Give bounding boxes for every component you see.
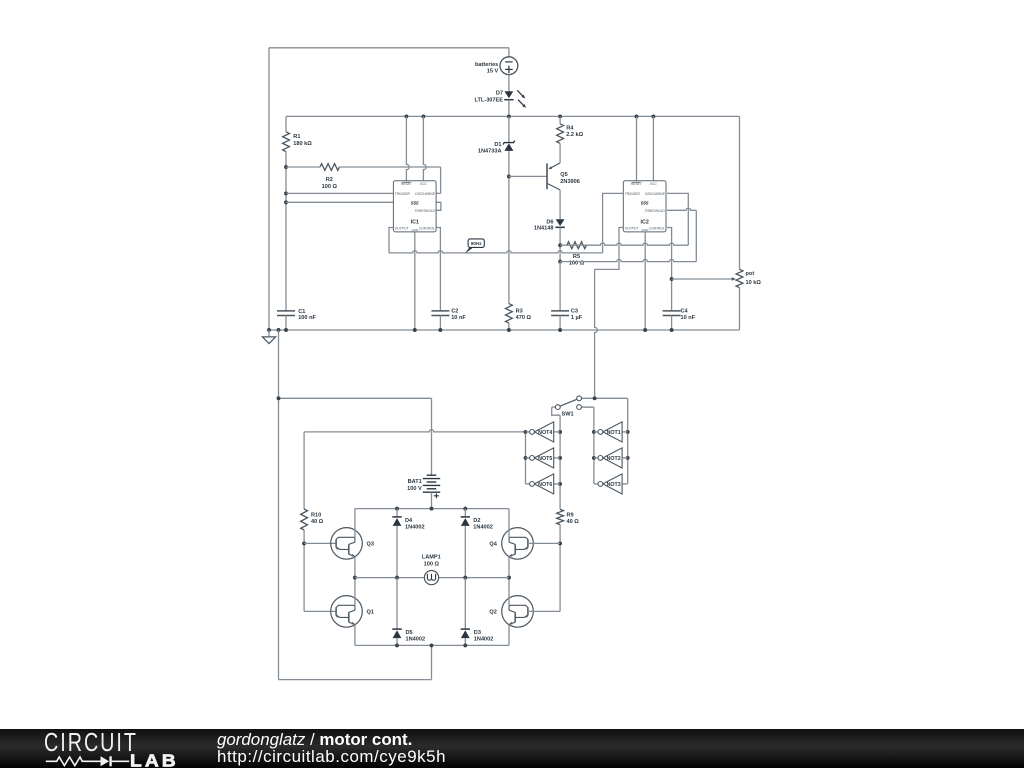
svg-text:1N4002: 1N4002	[406, 637, 426, 643]
svg-text:555: 555	[411, 201, 419, 206]
wire NOT123 input bus	[626, 398, 630, 484]
wire IC1 THRESHOLD stub	[436, 202, 441, 210]
node bus junctions	[404, 114, 655, 118]
switch SW1	[552, 396, 628, 418]
inverter NOT3	[594, 474, 628, 494]
wire battery top stub	[508, 48, 510, 57]
wire R1 column	[285, 152, 287, 311]
wire R3 to rail	[508, 323, 510, 330]
svg-text:DISCHARGE: DISCHARGE	[645, 192, 665, 196]
wire battery to LED	[508, 75, 510, 92]
wire IC2 VCC pin	[652, 116, 654, 180]
svg-text:1N4002: 1N4002	[405, 524, 425, 530]
svg-text:LAMP1: LAMP1	[422, 555, 441, 561]
svg-text:SW1: SW1	[562, 412, 574, 418]
svg-text:1N4148: 1N4148	[534, 226, 554, 232]
inverter NOT4	[526, 422, 561, 442]
svg-text:GND: GND	[412, 228, 418, 232]
ground	[262, 330, 275, 344]
resistor R5 100 Ohm	[567, 242, 587, 267]
svg-text:Q4: Q4	[489, 542, 497, 548]
wire Q1 gate	[304, 610, 336, 612]
capacitor C1 100 nF	[277, 309, 317, 330]
wire R2 to IC1 DISCHARGE	[436, 167, 441, 193]
svg-text:LTL-307EE: LTL-307EE	[475, 98, 504, 104]
wire IC1 RESET pin	[406, 116, 409, 180]
svg-text:1N4002: 1N4002	[474, 637, 494, 643]
svg-text:OUTPUT: OUTPUT	[625, 226, 640, 230]
svg-text:D3: D3	[474, 630, 481, 636]
wire R4 to Q5 emitter	[559, 143, 561, 163]
svg-text:CONTROL: CONTROL	[419, 226, 435, 230]
resistor R4 2.2 kOhm	[557, 116, 584, 143]
wire BAT1 top	[431, 398, 433, 475]
op-amp IC2 555 timer	[623, 181, 666, 232]
wire IC1 GND pin	[414, 232, 416, 330]
svg-text:NOT4: NOT4	[538, 430, 552, 436]
wire Q5 collector to D6	[559, 190, 561, 219]
diode D5 1N4002	[392, 578, 425, 646]
svg-text:CIRCUIT: CIRCUIT	[44, 732, 138, 757]
wire BAT1 bottom	[431, 492, 433, 508]
wire NOT456 output bus	[524, 430, 528, 484]
svg-text:VCC: VCC	[420, 182, 428, 186]
svg-text:LAB: LAB	[130, 754, 179, 769]
wire IC2 RESET pin	[636, 116, 638, 180]
svg-text:100 V: 100 V	[407, 486, 422, 492]
svg-text:15 V: 15 V	[487, 68, 499, 74]
svg-text:GND: GND	[641, 228, 647, 232]
svg-text:D5: D5	[406, 630, 413, 636]
potentiometer pot 10 kOhm	[672, 116, 762, 330]
svg-text:RESET: RESET	[401, 182, 413, 186]
wire R5 row to IC2 DISCHARGE	[560, 193, 688, 245]
capacitor C3 1 uF	[551, 262, 583, 330]
wire ground rail	[269, 329, 740, 331]
svg-text:DISCHARGE: DISCHARGE	[415, 192, 435, 196]
LED D7 LTL-307EE	[475, 90, 527, 108]
svg-text:Q1: Q1	[367, 610, 374, 616]
wire IC2 TRIGGER	[603, 193, 624, 253]
svg-text:1N4733A: 1N4733A	[478, 149, 502, 155]
transistor Q4	[489, 528, 533, 560]
svg-text:THRESHOLD: THRESHOLD	[644, 209, 665, 213]
resistor R9 40 Ohm	[557, 509, 580, 525]
svg-text:1N4002: 1N4002	[473, 524, 493, 530]
diode D6 1N4148	[534, 219, 565, 231]
inverter NOT1	[594, 422, 628, 442]
flag 80Hz	[465, 239, 485, 254]
svg-text:555: 555	[641, 201, 649, 206]
wire IC2 CONTROL pin	[667, 228, 674, 311]
wire Q2 gate	[528, 610, 560, 612]
svg-text:IC2: IC2	[641, 219, 649, 225]
diode D2 1N4002	[461, 509, 493, 578]
wire +15V bus	[286, 115, 740, 117]
resistor R3 470 Ohm	[506, 304, 532, 324]
svg-text:D4: D4	[405, 518, 413, 524]
svg-text:THRESHOLD: THRESHOLD	[415, 209, 436, 213]
wire C4 to rail	[671, 316, 673, 331]
CircuitLab logo	[44, 729, 204, 768]
svg-text:R2: R2	[326, 177, 333, 183]
svg-text:D1: D1	[494, 142, 501, 148]
inverter NOT5	[526, 448, 561, 468]
wire trigger-threshold tie	[286, 201, 393, 203]
wire IC2 OUTPUT to SW1 feed	[595, 228, 624, 399]
wire IC2 GND pin	[644, 232, 646, 330]
node rail junctions	[267, 328, 674, 332]
svg-text:R5: R5	[573, 254, 580, 260]
wire IC1 TRIGGER	[286, 192, 393, 194]
diode D1 1N4733A zener	[478, 141, 515, 155]
svg-text:100 Ω: 100 Ω	[424, 562, 440, 568]
svg-text:Q3: Q3	[367, 542, 374, 548]
wire R9 to right gates	[558, 525, 562, 612]
wire Q4 gate	[528, 542, 560, 544]
svg-text:batteries: batteries	[475, 62, 498, 68]
capacitor C2 10 nF	[431, 308, 466, 321]
wire bridge left vertical	[353, 509, 357, 646]
wire D1 to R3	[508, 151, 510, 304]
svg-text:R9: R9	[567, 512, 574, 518]
op-amp IC1 555 timer	[393, 181, 436, 232]
svg-text:NOT2: NOT2	[607, 456, 621, 462]
svg-text:TRIGGER: TRIGGER	[625, 192, 641, 196]
inverter NOT6	[526, 474, 561, 494]
node lamp row junctions	[395, 576, 467, 580]
svg-text:10 nF: 10 nF	[451, 315, 466, 321]
svg-text:C4: C4	[681, 308, 689, 314]
svg-text:R10: R10	[311, 512, 321, 518]
svg-text:40 Ω: 40 Ω	[567, 519, 580, 525]
svg-text:40 Ω: 40 Ω	[311, 519, 324, 525]
lamp LAMP1 100 Ohm	[355, 555, 509, 585]
footer title text	[217, 731, 446, 766]
svg-text:80Hz: 80Hz	[471, 241, 482, 246]
wire NOT123 output bus	[582, 407, 596, 484]
wire IC1 CONTROL pin	[436, 228, 440, 311]
wire threshold row	[560, 210, 696, 261]
svg-text:1 µF: 1 µF	[571, 315, 583, 321]
wire IC1 OUTPUT pin	[389, 228, 393, 253]
svg-text:470 Ω: 470 Ω	[516, 315, 532, 321]
svg-text:TRIGGER: TRIGGER	[395, 192, 411, 196]
capacitor C4 10 nF	[663, 308, 696, 321]
svg-text:2N3906: 2N3906	[560, 179, 580, 185]
diode D4 1N4002	[392, 509, 424, 578]
svg-text:2.2 kΩ: 2.2 kΩ	[566, 132, 583, 138]
wire D6 to row junctions	[558, 227, 562, 263]
svg-text:D2: D2	[473, 518, 480, 524]
svg-text:CONTROL: CONTROL	[649, 226, 665, 230]
transistor Q1	[331, 596, 374, 628]
wire NOT456 input bus	[558, 415, 562, 509]
svg-text:NOT1: NOT1	[607, 430, 621, 436]
svg-text:OUTPUT: OUTPUT	[395, 226, 410, 230]
wire IC1 output row 80Hz	[389, 251, 603, 253]
resistor R1 180 kOhm	[283, 116, 313, 151]
svg-text:pot: pot	[746, 271, 755, 277]
wire IC1 VCC pin	[423, 116, 426, 180]
svg-text:C1: C1	[298, 309, 305, 315]
svg-text:IC1: IC1	[411, 219, 419, 225]
transistor Q5 2N3906	[509, 163, 580, 190]
svg-text:180 kΩ: 180 kΩ	[293, 141, 312, 147]
svg-text:R1: R1	[293, 134, 300, 140]
svg-text:RESET: RESET	[631, 182, 643, 186]
diode D3 1N4002	[461, 578, 494, 646]
resistor R2 100 Ohm	[286, 164, 441, 190]
svg-text:C3: C3	[571, 308, 578, 314]
svg-text:NOT6: NOT6	[538, 482, 552, 488]
node R1 column junctions	[284, 165, 288, 204]
svg-text:100 nF: 100 nF	[298, 315, 316, 321]
wire Q3 gate	[304, 542, 336, 544]
transistor Q2	[489, 596, 533, 628]
svg-text:BAT1: BAT1	[408, 479, 422, 485]
svg-text:10 kΩ: 10 kΩ	[746, 280, 762, 286]
voltage source batteries 15 V	[475, 57, 518, 75]
svg-text:Q2: Q2	[489, 610, 496, 616]
wire top-left loop	[269, 48, 509, 330]
wire left return vertical	[279, 330, 432, 680]
wire BAT1 top row	[277, 396, 432, 400]
inverter NOT2	[594, 448, 628, 468]
svg-text:D6: D6	[546, 219, 553, 225]
resistor R10 40 Ohm	[301, 432, 324, 530]
svg-text:NOT3: NOT3	[607, 482, 621, 488]
wire R10 to gates	[302, 530, 306, 611]
svg-text:R4: R4	[566, 126, 574, 132]
transistor Q3	[331, 528, 374, 560]
node Q5 base junction	[507, 174, 511, 178]
wire D1 column top	[508, 116, 510, 142]
svg-text:NOT5: NOT5	[538, 456, 552, 462]
svg-text:R3: R3	[516, 308, 523, 314]
svg-text:100 Ω: 100 Ω	[322, 184, 338, 190]
wire bridge top rail	[355, 507, 509, 511]
svg-text:10 nF: 10 nF	[681, 315, 696, 321]
wire NOT4 output row	[304, 430, 525, 432]
wire LED to bus	[508, 100, 510, 117]
svg-text:VCC: VCC	[650, 182, 658, 186]
wire bridge bottom rail	[355, 643, 509, 647]
svg-text:D7: D7	[496, 90, 503, 96]
wire bridge right vertical	[507, 509, 511, 646]
svg-text:Q5: Q5	[560, 172, 567, 178]
battery BAT1 100 V	[407, 475, 440, 498]
svg-text:C2: C2	[451, 308, 458, 314]
wire IC2 THRESHOLD stub	[667, 208, 696, 210]
wire C2 to ground rail	[439, 316, 441, 331]
